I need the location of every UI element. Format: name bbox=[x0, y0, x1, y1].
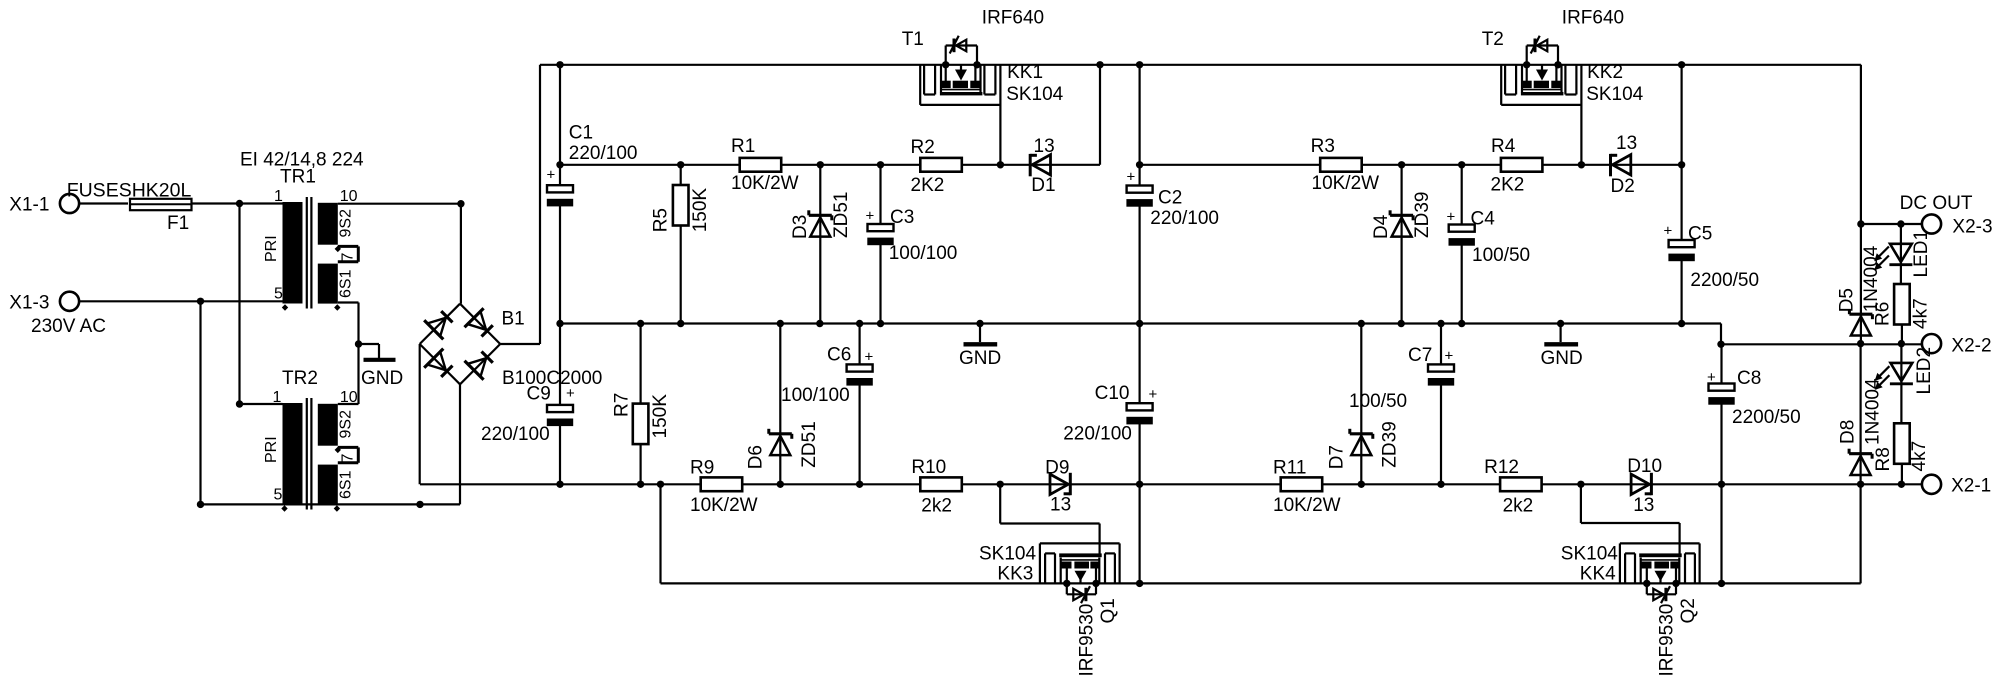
label KK4 bbox=[1580, 564, 1616, 585]
svg-text:IRF9530: IRF9530 bbox=[1077, 604, 1098, 677]
node C7 / mid rail bbox=[1437, 320, 1444, 327]
svg-text:R1: R1 bbox=[731, 136, 755, 157]
wire bridge left output drop bbox=[419, 344, 421, 484]
diode D9 13 bbox=[1050, 473, 1070, 495]
polarity + C7 bbox=[1445, 348, 1454, 365]
svg-text:100/50: 100/50 bbox=[1472, 245, 1530, 266]
label R9 bbox=[690, 458, 714, 479]
node junction top bus / C2 bbox=[1136, 61, 1143, 68]
svg-text:X2-2: X2-2 bbox=[1951, 336, 1991, 357]
label B1 bbox=[502, 308, 525, 329]
svg-text:4k7: 4k7 bbox=[1909, 441, 1930, 472]
svg-text:100/100: 100/100 bbox=[889, 243, 958, 264]
node GND stub stage2 bbox=[1557, 320, 1564, 327]
pin 10 TR2 bbox=[340, 389, 358, 406]
node TR2 pin1 corner bbox=[236, 400, 243, 407]
svg-text:230V AC: 230V AC bbox=[31, 316, 106, 337]
node R12-D10 / Q2 gate bbox=[1577, 481, 1584, 488]
wire top positive bus bbox=[540, 64, 1861, 66]
label X2-3 bbox=[1952, 216, 1992, 237]
node C3 / mid rail bbox=[877, 320, 884, 327]
capacitor C10 bbox=[1126, 324, 1152, 584]
svg-text:D5: D5 bbox=[1836, 288, 1857, 312]
svg-text:PRI: PRI bbox=[263, 235, 280, 262]
svg-text:10K/2W: 10K/2W bbox=[731, 173, 799, 194]
svg-text:TR1: TR1 bbox=[280, 167, 316, 188]
resistor R7 bbox=[633, 324, 649, 485]
svg-text:TR2: TR2 bbox=[282, 368, 318, 389]
node R10-D9 / Q1 gate bbox=[997, 481, 1004, 488]
svg-text:+: + bbox=[865, 349, 874, 366]
label KK1 bbox=[1007, 62, 1043, 83]
wire mid zero-volt rail bbox=[560, 322, 1721, 324]
node TR2 bottom rail / bridge-left dot bbox=[416, 501, 423, 508]
terminal X2-2 bbox=[1922, 334, 1941, 353]
svg-text:FUSESHK20L: FUSESHK20L bbox=[67, 180, 192, 202]
terminal X2-3 bbox=[1922, 214, 1941, 233]
label LED2 bbox=[1914, 347, 1935, 395]
node X2-2 / R6-LED2 column bbox=[1898, 340, 1905, 347]
svg-text:220/100: 220/100 bbox=[1063, 424, 1132, 445]
label SK104 KK4 bbox=[1561, 544, 1618, 565]
label C7 value 100/50 bbox=[1349, 391, 1407, 412]
svg-text:B100C2000: B100C2000 bbox=[502, 368, 602, 389]
node D3 / rail1 bbox=[817, 161, 824, 168]
label R9 value 10K/2W bbox=[690, 495, 758, 516]
label R5 bbox=[651, 208, 672, 232]
label D8 bbox=[1837, 420, 1858, 444]
label C3 bbox=[890, 207, 914, 228]
label D7 bbox=[1327, 445, 1348, 469]
label X1-1 bbox=[9, 195, 49, 216]
label LED1 bbox=[1911, 230, 1932, 278]
zener D4 ZD39 bbox=[1390, 165, 1413, 324]
svg-text:DC OUT: DC OUT bbox=[1900, 193, 1973, 214]
wire bridge right output bbox=[500, 343, 540, 345]
svg-text:D3: D3 bbox=[790, 215, 811, 239]
resistor R8 bbox=[1894, 423, 1910, 484]
wire TR1 pin6 out bbox=[338, 303, 359, 405]
label R1 bbox=[731, 136, 755, 157]
label R8 value 4k7 bbox=[1909, 441, 1930, 472]
capacitor C2 bbox=[1126, 65, 1152, 324]
node R5 / rail1 bbox=[677, 161, 684, 168]
label R11 value 10K/2W bbox=[1273, 495, 1341, 516]
node C8 / lower rail bbox=[1718, 481, 1725, 488]
svg-text:X2-1: X2-1 bbox=[1951, 476, 1991, 497]
wire mid rail drop to X2-2 row bbox=[1720, 324, 1722, 345]
label C7 bbox=[1408, 345, 1432, 366]
polarity + C3 bbox=[866, 208, 875, 225]
svg-text:R11: R11 bbox=[1273, 458, 1306, 479]
node X2-3 / D5 column bbox=[1857, 220, 1864, 227]
ground GND mid stage2 bbox=[1541, 324, 1583, 370]
svg-text:C6: C6 bbox=[827, 345, 851, 366]
svg-text:ZD51: ZD51 bbox=[799, 421, 820, 467]
wire bridge top riser bbox=[460, 204, 462, 304]
tick TR2 S1 bbox=[334, 505, 340, 511]
node D4 / mid rail bbox=[1398, 320, 1405, 327]
label C9 value 220/100 bbox=[481, 424, 550, 445]
fuse F1 bbox=[130, 199, 192, 210]
svg-text:10: 10 bbox=[340, 188, 358, 205]
label DC OUT bbox=[1900, 193, 1973, 214]
svg-text:C9: C9 bbox=[527, 384, 551, 405]
resistor R6 bbox=[1894, 284, 1910, 344]
label R7 bbox=[612, 393, 633, 417]
resistor R1 bbox=[740, 158, 782, 172]
label B100C2000 bbox=[502, 368, 602, 389]
label C6 bbox=[827, 345, 851, 366]
label D9 bbox=[1045, 458, 1069, 479]
label R3 bbox=[1311, 136, 1335, 157]
svg-text:100/50: 100/50 bbox=[1349, 391, 1407, 412]
svg-text:150K: 150K bbox=[650, 394, 671, 439]
svg-text:10K/2W: 10K/2W bbox=[1312, 173, 1380, 194]
wire X2-1 drop to bottom bus bbox=[1859, 484, 1861, 583]
label 6S1 TR2 bbox=[338, 470, 355, 499]
pin 7 TR1 bbox=[340, 253, 357, 262]
led LED1 bbox=[1889, 224, 1912, 284]
svg-text:Q2: Q2 bbox=[1678, 598, 1699, 623]
wire branch down to TR2 bottom rail bbox=[199, 301, 201, 504]
svg-text:IRF640: IRF640 bbox=[982, 8, 1044, 29]
svg-text:13: 13 bbox=[1050, 495, 1071, 516]
node R7 / mid rail bbox=[637, 320, 644, 327]
wire TR2 pin1 bbox=[240, 403, 283, 405]
svg-text:2K2: 2K2 bbox=[1491, 175, 1525, 196]
svg-text:+: + bbox=[1664, 223, 1673, 240]
svg-text:D4: D4 bbox=[1371, 214, 1392, 239]
wire X1-3 to TR1 pin5 bbox=[79, 300, 283, 302]
svg-text:KK2: KK2 bbox=[1587, 62, 1623, 83]
label C8 bbox=[1737, 368, 1761, 389]
label R5 value 150K bbox=[690, 188, 711, 233]
polarity + C10 bbox=[1149, 386, 1158, 403]
wire junction down to TR2 pin1 bbox=[238, 204, 240, 405]
node C9 / lower rail bbox=[556, 481, 563, 488]
label D6 bbox=[746, 445, 767, 469]
svg-text:IRF640: IRF640 bbox=[1562, 8, 1624, 29]
capacitor C7 bbox=[1428, 324, 1454, 485]
label C3 value 100/100 bbox=[889, 243, 958, 264]
node C2 / rail2 bbox=[1136, 161, 1143, 168]
label C5 value 2200/50 bbox=[1690, 270, 1759, 291]
svg-text:+: + bbox=[1447, 209, 1456, 226]
label R1 value 10K/2W bbox=[731, 173, 799, 194]
svg-text:LED1: LED1 bbox=[1911, 230, 1932, 278]
svg-text:SK104: SK104 bbox=[1561, 544, 1618, 565]
label R10 value 2k2 bbox=[921, 496, 952, 517]
label SK104 KK1 bbox=[1006, 84, 1063, 105]
wire T1 gate lead bbox=[999, 65, 1001, 165]
capacitor C9 bbox=[547, 324, 573, 485]
wire TR2 pin10 up to common bbox=[338, 403, 359, 405]
zener D8 1N4004 bbox=[1849, 344, 1872, 485]
svg-text:100/100: 100/100 bbox=[781, 385, 850, 406]
diode bridge lower-left bbox=[424, 349, 452, 377]
svg-text:X1-3: X1-3 bbox=[9, 292, 49, 313]
node D7 / lower rail bbox=[1358, 481, 1365, 488]
svg-text:13: 13 bbox=[1633, 495, 1654, 516]
node X2-1 / D8 column bbox=[1857, 481, 1864, 488]
svg-text:R6: R6 bbox=[1873, 302, 1894, 326]
svg-text:D8: D8 bbox=[1837, 420, 1858, 444]
label C8 value 2200/50 bbox=[1732, 407, 1801, 428]
node R2-D1 / T1 gate bbox=[997, 161, 1004, 168]
svg-text:D2: D2 bbox=[1611, 176, 1635, 197]
svg-text:D6: D6 bbox=[746, 445, 767, 469]
svg-text:D1: D1 bbox=[1031, 175, 1055, 196]
node C6 / lower rail bbox=[856, 481, 863, 488]
svg-text:R9: R9 bbox=[690, 458, 714, 479]
node D6 / mid rail bbox=[777, 320, 784, 327]
wire X1-1 to fuse bbox=[79, 202, 128, 204]
svg-text:+: + bbox=[566, 385, 575, 402]
wire Q2 gate jog bbox=[1581, 484, 1680, 556]
label T2 bbox=[1482, 29, 1504, 50]
resistor R2 bbox=[920, 158, 962, 172]
node C5 / D2 rail bbox=[1678, 161, 1685, 168]
label KK2 bbox=[1587, 62, 1623, 83]
wire lower regulator rail bbox=[420, 483, 1922, 485]
wire D1 cathode riser to top bus bbox=[1099, 65, 1101, 165]
node C1 / rail1 bbox=[556, 161, 563, 168]
label D10 bbox=[1627, 456, 1662, 477]
svg-text:KK1: KK1 bbox=[1007, 62, 1043, 83]
svg-text:SK104: SK104 bbox=[1586, 84, 1643, 105]
svg-text:D10: D10 bbox=[1627, 456, 1662, 477]
wire bottom negative bus bbox=[661, 582, 1861, 584]
svg-text:SK104: SK104 bbox=[1006, 84, 1063, 105]
svg-text:GND: GND bbox=[959, 348, 1001, 369]
diode D2 13 bbox=[1611, 154, 1631, 176]
label C2 bbox=[1158, 188, 1182, 209]
label R4 value 2K2 bbox=[1491, 175, 1525, 196]
svg-text:LED2: LED2 bbox=[1914, 347, 1935, 395]
label D3 value ZD51 bbox=[831, 192, 852, 238]
label 6S1 TR1 bbox=[338, 269, 355, 298]
label EI 42/14,8 224 bbox=[240, 150, 364, 171]
ground GND mid stage1 bbox=[959, 324, 1001, 370]
svg-text:C2: C2 bbox=[1158, 188, 1182, 209]
svg-text:F1: F1 bbox=[167, 213, 189, 234]
svg-text:C7: C7 bbox=[1408, 345, 1432, 366]
diode bridge upper-right bbox=[465, 308, 493, 336]
label 230V AC bbox=[31, 316, 106, 337]
label D5 bbox=[1836, 288, 1857, 312]
resistor R9 bbox=[701, 477, 743, 491]
svg-text:Q1: Q1 bbox=[1098, 598, 1119, 623]
label R7 value 150K bbox=[650, 394, 671, 439]
svg-text:C1: C1 bbox=[569, 123, 593, 144]
node D4 / rail2 bbox=[1398, 161, 1405, 168]
svg-text:R4: R4 bbox=[1491, 136, 1516, 157]
pin 1 TR1 bbox=[274, 188, 283, 205]
label R3 value 10K/2W bbox=[1312, 173, 1380, 194]
pin 10 TR1 bbox=[340, 188, 358, 205]
transistor T2 IRF640 with heatsink KK2 bbox=[1501, 36, 1581, 105]
terminal X1-3 bbox=[60, 292, 79, 311]
svg-text:2k2: 2k2 bbox=[921, 496, 952, 517]
svg-text:T1: T1 bbox=[902, 29, 924, 50]
node X2-1 / R8 column bbox=[1898, 481, 1905, 488]
svg-text:220/100: 220/100 bbox=[481, 424, 550, 445]
svg-text:R2: R2 bbox=[911, 137, 935, 158]
svg-text:5: 5 bbox=[274, 286, 283, 303]
svg-text:T2: T2 bbox=[1482, 29, 1504, 50]
label D7 value ZD39 bbox=[1380, 421, 1401, 467]
svg-text:X1-1: X1-1 bbox=[9, 195, 49, 216]
wire T2 gate lead bbox=[1580, 65, 1582, 165]
resistor R5 bbox=[673, 165, 689, 324]
pin 5 TR1 bbox=[274, 286, 283, 303]
svg-text:SK104: SK104 bbox=[979, 544, 1036, 565]
node X1-3 branch bbox=[197, 298, 204, 305]
svg-text:+: + bbox=[1445, 348, 1454, 365]
svg-text:X2-3: X2-3 bbox=[1952, 216, 1992, 237]
label 9S2 TR1 bbox=[338, 209, 355, 238]
svg-text:6S1: 6S1 bbox=[338, 470, 355, 499]
capacitor C6 bbox=[846, 324, 872, 485]
label F1 bbox=[167, 213, 189, 234]
node D6 / lower rail bbox=[777, 481, 784, 488]
label IRF640 T2 bbox=[1562, 8, 1624, 29]
capacitor C4 bbox=[1449, 165, 1475, 324]
svg-text:R3: R3 bbox=[1311, 136, 1335, 157]
terminal X2-1 bbox=[1922, 475, 1941, 494]
resistor R11 bbox=[1281, 477, 1323, 491]
node X2-2 / D5-D8 column bbox=[1857, 340, 1864, 347]
resistor R12 bbox=[1500, 477, 1542, 491]
svg-text:9S2: 9S2 bbox=[338, 209, 355, 238]
capacitor C8 bbox=[1708, 344, 1734, 583]
tick TR2 tap bbox=[335, 447, 341, 453]
polarity + C5 bbox=[1664, 223, 1673, 240]
svg-text:220/100: 220/100 bbox=[569, 143, 638, 164]
svg-text:KK4: KK4 bbox=[1580, 564, 1616, 585]
label T1 bbox=[902, 29, 924, 50]
transformer TR1 bbox=[283, 197, 359, 309]
label D4 value ZD39 bbox=[1412, 192, 1433, 238]
label C6 value 100/100 bbox=[781, 385, 850, 406]
label 13 of D1 bbox=[1034, 136, 1055, 157]
label R12 value 2k2 bbox=[1503, 496, 1534, 517]
svg-text:10K/2W: 10K/2W bbox=[1273, 495, 1341, 516]
node X2-3 / LED1 column bbox=[1897, 220, 1904, 227]
node secondary common / GND bbox=[355, 340, 362, 347]
diode D10 13 bbox=[1631, 473, 1651, 495]
label C1 value 220/100 bbox=[569, 143, 638, 164]
polarity + C9 bbox=[566, 385, 575, 402]
wire bottom bus left riser bbox=[659, 484, 661, 583]
wire upper regulator rail stage1 bbox=[560, 164, 1100, 166]
node junction top bus / D1 feedback bbox=[1096, 61, 1103, 68]
svg-text:+: + bbox=[1127, 169, 1136, 186]
svg-text:7: 7 bbox=[340, 454, 357, 463]
led LED2 bbox=[1890, 344, 1913, 424]
transistor Q2 IRF9530 with heatsink KK4 bbox=[1620, 543, 1700, 603]
svg-text:R5: R5 bbox=[651, 208, 672, 232]
svg-text:IRF9530: IRF9530 bbox=[1657, 604, 1678, 677]
node R4-D2 / T2 gate bbox=[1578, 161, 1585, 168]
label 9S2 TR2 bbox=[338, 410, 355, 439]
capacitor C5 bbox=[1668, 65, 1694, 324]
label Q2 bbox=[1678, 598, 1699, 623]
label C4 value 100/50 bbox=[1472, 245, 1530, 266]
svg-text:GND: GND bbox=[1541, 348, 1583, 369]
pin 1 TR2 bbox=[273, 389, 282, 406]
node mid rail corner / C8 column bbox=[1717, 341, 1724, 348]
label D2 bbox=[1611, 176, 1635, 197]
label X2-1 bbox=[1951, 476, 1991, 497]
node D7 / mid rail bbox=[1358, 320, 1365, 327]
svg-text:GND: GND bbox=[361, 368, 403, 389]
svg-text:C10: C10 bbox=[1095, 383, 1130, 404]
label R8 bbox=[1873, 447, 1894, 471]
polarity + C2 bbox=[1127, 169, 1136, 186]
label IRF9530 Q2 bbox=[1657, 604, 1678, 677]
label SK104 KK2 bbox=[1586, 84, 1643, 105]
label IRF9530 Q1 bbox=[1077, 604, 1098, 677]
resistor R3 bbox=[1320, 158, 1362, 172]
svg-text:C3: C3 bbox=[890, 207, 914, 228]
node C7 / lower rail bbox=[1437, 481, 1444, 488]
label SK104 KK3 bbox=[979, 544, 1036, 565]
transformer TR2 bbox=[283, 398, 359, 510]
svg-text:13: 13 bbox=[1616, 133, 1637, 154]
node C4 / rail2 bbox=[1458, 161, 1465, 168]
wire left bus corner vertical to bridge output bbox=[539, 65, 541, 344]
label TR2 bbox=[282, 368, 318, 389]
svg-text:R8: R8 bbox=[1873, 447, 1894, 471]
label R10 bbox=[911, 457, 946, 478]
svg-text:1: 1 bbox=[273, 389, 282, 406]
wire top bus drop to X2-3 bbox=[1860, 65, 1862, 224]
label 13 of D10 bbox=[1633, 495, 1654, 516]
node R7 / lower rail bbox=[637, 481, 644, 488]
svg-text:R7: R7 bbox=[612, 393, 633, 417]
tick TR1 S1 bbox=[334, 304, 340, 310]
node GND stub stage1 bbox=[976, 320, 983, 327]
label IRF640 T1 bbox=[982, 8, 1044, 29]
zener D7 ZD39 bbox=[1350, 324, 1373, 485]
wire X2-2 output row bbox=[1721, 343, 1922, 345]
label C2 value 220/100 bbox=[1150, 208, 1219, 229]
transistor Q1 IRF9530 with heatsink KK3 bbox=[1040, 543, 1120, 603]
label R12 bbox=[1484, 457, 1519, 478]
node junction top bus / C5 bbox=[1678, 61, 1685, 68]
diode bridge lower-right bbox=[465, 352, 493, 380]
node C8 / bottom bus bbox=[1718, 580, 1725, 587]
bridge B1 arms bbox=[420, 304, 501, 385]
transistor T1 IRF640 with heatsink KK1 bbox=[920, 36, 1000, 105]
svg-text:220/100: 220/100 bbox=[1150, 208, 1219, 229]
node TR2 bottom rail corner bbox=[197, 501, 204, 508]
svg-text:+: + bbox=[866, 208, 875, 225]
node lower rail / bottom bus riser bbox=[657, 481, 664, 488]
label C10 value 220/100 bbox=[1063, 424, 1132, 445]
label TR1 bbox=[280, 167, 316, 188]
wire fuse to TR1 pin1 bbox=[191, 202, 283, 204]
label D3 bbox=[790, 215, 811, 239]
svg-text:KK3: KK3 bbox=[997, 564, 1033, 585]
label PRI TR2 bbox=[263, 436, 280, 463]
label R6 bbox=[1873, 302, 1894, 326]
label D6 value ZD51 bbox=[799, 421, 820, 467]
tick TR1 tap bbox=[335, 246, 341, 252]
wire bridge bottom AC drop bbox=[459, 384, 461, 504]
